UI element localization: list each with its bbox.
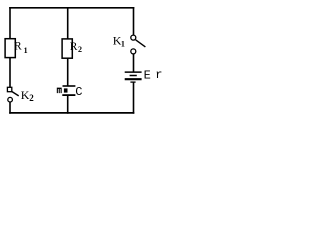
switch K2 square terminal [7,87,11,91]
battery cell plate 4 short negative [130,81,135,83]
switch K1 top circle terminal [131,35,136,40]
wire right branch upper segment (top bus to K1) [133,7,135,35]
wire middle branch lower segment (C to bottom bus) [67,96,69,114]
battery cell plate 3 long positive [125,78,142,80]
capacitor C bottom plate [62,94,75,96]
svg-text:C: C [75,85,82,99]
switch K1 bottom circle terminal [131,49,136,54]
svg-text:1: 1 [24,46,28,55]
capacitor C mark filled square [64,88,68,92]
switch K2 blade [12,91,19,96]
wire middle branch upper segment (top bus to R2) [67,7,69,39]
battery cell plate 2 short negative [130,75,137,77]
svg-text:1: 1 [121,40,125,49]
svg-text:E: E [144,68,151,82]
switch K2 bottom circle terminal [8,97,13,102]
wire middle branch segment (R2 to capacitor C) [67,58,69,86]
battery cell plate 1 long positive [125,71,142,73]
wire right branch segment (K1 to battery) [133,54,135,72]
capacitor C polarity mark m [57,88,62,94]
capacitor C top plate [63,85,76,87]
resistor R2 [62,39,72,58]
switch K1 blade [136,40,146,47]
wire left branch middle segment (R1 to K2) [9,58,11,88]
svg-text:r: r [155,68,162,82]
svg-text:2: 2 [78,45,82,54]
wire bottom bus from left corner to right corner [9,112,134,114]
wire top bus from left corner to right corner [9,7,134,9]
svg-text:R: R [70,41,78,53]
svg-text:R: R [14,41,22,53]
wire left branch lower segment (K2 to bottom bus) [9,102,11,114]
svg-text:2: 2 [29,93,34,103]
wire left branch upper segment (top bus to R1) [9,7,11,39]
wire right branch lower segment (battery to bottom bus) [133,82,135,114]
resistor R1 [5,39,15,58]
